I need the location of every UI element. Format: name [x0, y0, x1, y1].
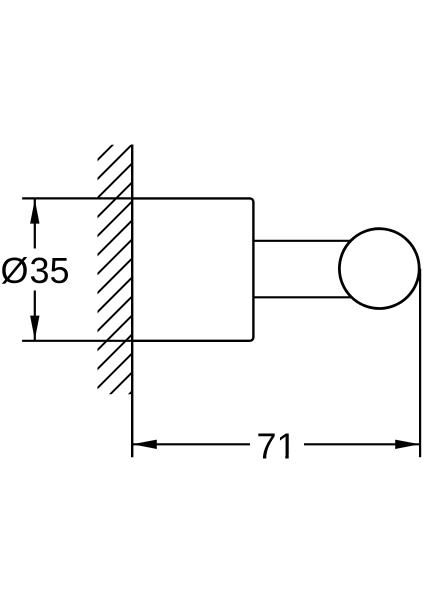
white mask hiding digit-1 foot serif (left)	[276, 455, 285, 460]
right extension line of 71 dimension	[419, 269, 421, 458]
svg-text:Ø: Ø	[1, 250, 29, 291]
diameter 35 dimension line lower segment	[34, 291, 36, 341]
71 dimension left arrow	[132, 440, 156, 449]
71 dimension line left segment	[132, 443, 250, 445]
wall line (also left extension line of 71 dimension)	[131, 145, 133, 458]
diameter 35 dimension lower arrow	[30, 316, 39, 340]
white mask hiding digit-1 foot serif (right)	[289, 455, 297, 460]
71 dimension right arrow	[395, 440, 419, 449]
diameter 35 dimension line upper segment	[34, 200, 36, 249]
hook rod bottom line	[253, 296, 365, 298]
top extension line of diameter 35 dimension	[22, 197, 132, 199]
71 dimension line right segment	[304, 443, 420, 445]
diameter 35 dimension upper arrow	[30, 199, 39, 223]
hook rod top line	[253, 240, 365, 242]
svg-text:35: 35	[30, 250, 70, 291]
hook body (wall-mounted cylinder)	[132, 198, 253, 340]
hook ball (sphere)	[339, 229, 419, 309]
bottom extension line of diameter 35 dimension	[22, 340, 132, 342]
wall hatching	[0, 140, 384, 400]
